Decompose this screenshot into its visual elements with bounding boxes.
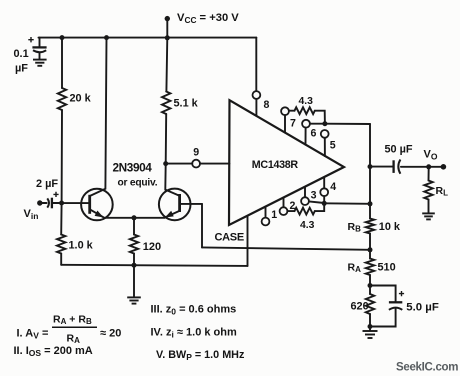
svg-text:IV. zi ≈ 1.0 k ohm: IV. zi ≈ 1.0 k ohm (151, 326, 237, 339)
node top pins junction (322, 121, 327, 126)
svg-text:1.0 k: 1.0 k (69, 239, 94, 251)
wire pin 9 to op-amp (200, 163, 229, 165)
node feedback top junction (368, 201, 373, 206)
svg-text:CASE: CASE (215, 232, 244, 244)
wire rail to 20k (61, 38, 63, 88)
resistor 4.3 bottom (295, 208, 315, 215)
capacitor 0.1 uF plus sign (28, 37, 33, 42)
transistor Q1 base bar (88, 195, 91, 214)
pin 1 (262, 218, 270, 226)
wire output to 50uF (370, 166, 393, 168)
pin 3 (301, 197, 309, 205)
wire bottom ground rail (61, 265, 247, 266)
pin 9 terminal (192, 160, 200, 168)
transistor Q1 2N3904 body (81, 189, 113, 221)
resistor 120 (130, 235, 138, 254)
capacitor 2 uF (47, 198, 49, 207)
resistor RA 510 (366, 259, 374, 276)
wire pin 2 to resistor (287, 210, 294, 212)
wire CASE stub (247, 216, 249, 266)
terminal VO output (441, 164, 447, 170)
pin 6 (302, 120, 310, 128)
node junction on rail at VCC (165, 35, 170, 40)
svg-text:510: 510 (378, 261, 396, 273)
svg-text:0.1: 0.1 (14, 48, 29, 60)
node collector junction (163, 161, 168, 166)
node output junction (368, 164, 373, 169)
svg-text:MC1438R: MC1438R (252, 159, 299, 171)
resistor 4.3 top (295, 107, 315, 114)
wire node to Q1 base (62, 202, 89, 204)
svg-text:5: 5 (330, 139, 336, 151)
wire node 9 to Q2 collector (165, 164, 178, 196)
svg-text:8: 8 (264, 99, 270, 111)
svg-text:I. AV =: I. AV = (17, 328, 49, 341)
capacitor 5.0 uF plus sign (399, 291, 404, 296)
wire Q2 base (181, 203, 202, 205)
ground below RL (422, 212, 435, 214)
svg-text:120: 120 (143, 241, 161, 253)
svg-text:II. IOS = 200 mA: II. IOS = 200 mA (14, 345, 93, 358)
wire 620 to ground node (369, 314, 371, 327)
op-amp MC1438R body (229, 100, 344, 225)
wire 20k to input node (61, 110, 63, 203)
wire junction to pin 9 (166, 163, 193, 165)
wire VO to RL (428, 167, 430, 181)
svg-text:620: 620 (351, 300, 369, 312)
svg-text:4.3: 4.3 (299, 96, 314, 107)
wire junction to output rail (325, 123, 370, 125)
svg-text:6: 6 (311, 128, 317, 140)
capacitor 5.0 uF (389, 301, 402, 303)
pin 5 (321, 130, 329, 138)
resistor 620 (366, 294, 374, 314)
node bottom pins junction (322, 201, 327, 206)
wire Q1 collector (91, 38, 107, 196)
wire Vin to 2uF (40, 202, 47, 204)
pin 7 (281, 107, 289, 115)
wire 50uF to VO (401, 166, 429, 168)
svg-text:10 k: 10 k (379, 221, 401, 233)
pin 8 (253, 91, 261, 99)
pin 2 (280, 207, 288, 215)
transistor Q1 emitter (91, 210, 104, 218)
wire RA to 620 (369, 275, 371, 294)
resistor 20k (58, 88, 66, 110)
power VCC terminal (165, 16, 170, 21)
node emitter junction (132, 215, 137, 220)
terminal Vin (37, 200, 42, 205)
svg-text:5.0 µF: 5.0 µF (406, 302, 439, 314)
wire pin 6 to junction (310, 123, 325, 125)
wire 2uF to node (53, 202, 62, 204)
wire ground stem (133, 265, 135, 297)
wire VO to terminal (429, 166, 444, 168)
wire 5uF cap to bottom (370, 309, 396, 327)
wire CASE feedback line (202, 247, 370, 249)
node bottom ground junction (368, 324, 373, 329)
svg-text:4: 4 (330, 181, 336, 193)
wire 5.1k to node 9 (165, 114, 168, 164)
svg-text:4.3: 4.3 (300, 220, 315, 231)
wire pin 7 to resistor (289, 110, 295, 112)
node ground rail junction (132, 263, 137, 268)
node RA bottom junction (368, 283, 373, 288)
node input junction (59, 201, 64, 206)
wire Q2 base down (201, 204, 203, 248)
svg-text:2N3904: 2N3904 (113, 160, 153, 174)
node VO junction (426, 164, 431, 169)
svg-text:50 µF: 50 µF (385, 144, 413, 156)
capacitor 0.1 uF plates (32, 46, 46, 48)
resistor RB 10k (366, 219, 374, 234)
svg-text:SeekIC.com: SeekIC.com (396, 362, 458, 374)
svg-text:7: 7 (290, 117, 296, 129)
svg-text:9: 9 (193, 147, 199, 159)
transistor Q2 emitter (165, 211, 179, 217)
capacitor 50 uF (392, 160, 394, 173)
wire rail to pin 8 (255, 38, 257, 92)
svg-text:III. z0 = 0.6 ohms: III. z0 = 0.6 ohms (151, 304, 237, 317)
wire top VCC rail (39, 37, 257, 39)
svg-text:2 µF: 2 µF (36, 178, 58, 190)
wire common emitter rail (104, 217, 165, 219)
resistor 5.1k (162, 92, 170, 115)
transistor Q2 base bar (178, 194, 181, 212)
svg-text:or equiv.: or equiv. (118, 178, 158, 189)
wire 1.0k to bottom rail (60, 254, 62, 265)
wire 4.3 bottom to junction (315, 203, 324, 211)
ground below 0.1 uF (33, 59, 47, 61)
wire output node down (369, 124, 371, 219)
node junction on rail at 20k (60, 35, 65, 40)
wire RA node to 5uF cap (370, 286, 396, 302)
capacitor 0.1 uF lead to ground (39, 53, 41, 59)
svg-text:V. BWP = 1.0 MHz: V. BWP = 1.0 MHz (156, 349, 245, 362)
svg-text:20 k: 20 k (70, 93, 92, 105)
svg-text:1: 1 (271, 209, 277, 221)
wire 4.3 top to junction (315, 111, 325, 124)
capacitor 0.1 uF lead (39, 38, 41, 47)
wire node to 1.0k (60, 203, 62, 235)
svg-text:µF: µF (15, 62, 28, 74)
svg-text:5.1 k: 5.1 k (174, 98, 199, 110)
wire 120 to bottom rail (133, 254, 135, 266)
resistor RL (424, 181, 432, 200)
wire emitter to 120 (133, 218, 135, 235)
wire junction to feedback rail (324, 202, 370, 205)
transistor Q2 2N3904 body (159, 189, 191, 221)
wire pin 3 to junction (309, 201, 324, 203)
svg-text:≈ 20: ≈ 20 (100, 328, 121, 340)
capacitor 2 uF plus sign (53, 192, 58, 197)
pin 4 (320, 188, 328, 196)
wire rail to 5.1k (165, 38, 168, 92)
ground below 620 (369, 327, 371, 331)
ground below 120 (127, 296, 141, 298)
svg-text:3: 3 (311, 189, 317, 201)
resistor 1.0k (57, 235, 65, 254)
node junction on rail at Q1 collector (104, 35, 109, 40)
wire RL to ground (428, 200, 430, 213)
wire RB to RA (369, 234, 371, 259)
node case junction (368, 247, 373, 252)
